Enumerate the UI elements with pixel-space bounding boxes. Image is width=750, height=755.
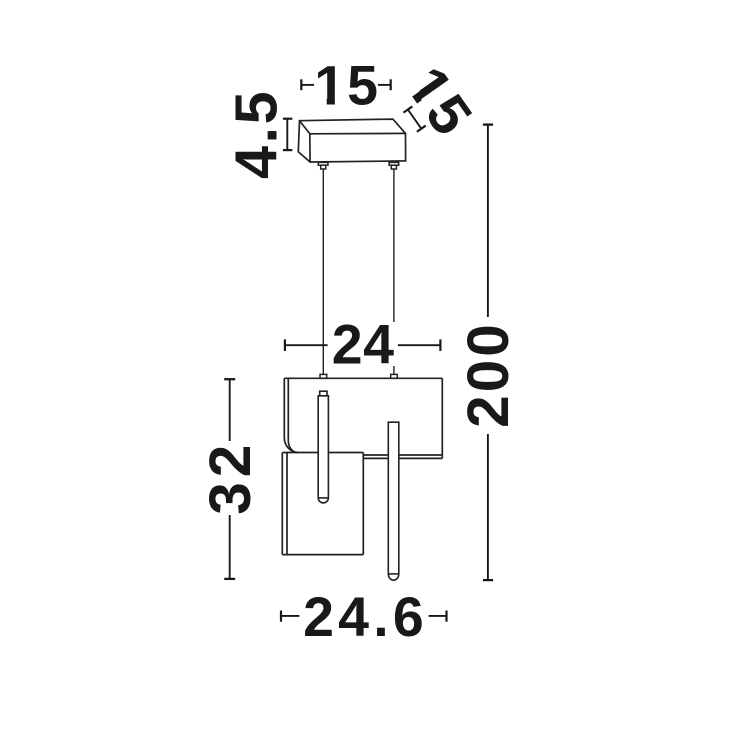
dimension 15 diagonal label <box>393 56 484 148</box>
dimension 200 ticks <box>483 125 493 580</box>
front LED tube cap <box>320 391 327 396</box>
upper panel of lamp body <box>284 378 442 458</box>
svg-text:32: 32 <box>198 440 263 515</box>
svg-text:24.6: 24.6 <box>303 586 428 648</box>
dimension 32 ticks <box>224 379 235 579</box>
right suspension wire <box>393 169 395 374</box>
svg-text:200: 200 <box>456 321 521 428</box>
dimension 15 top ticks <box>301 79 390 90</box>
svg-text:24: 24 <box>332 314 395 376</box>
dimension 15 diagonal ticks <box>403 106 425 131</box>
dimension 24 ticks <box>285 339 441 351</box>
canopy interior edges <box>300 121 406 162</box>
dimension 200 label <box>456 321 521 428</box>
canopy right wire connector <box>389 162 399 169</box>
body left wire nub <box>320 374 327 378</box>
dimension 4.5 ticks <box>283 119 292 150</box>
lower panel of lamp body <box>282 453 363 555</box>
svg-text:15: 15 <box>314 54 380 116</box>
dimension 24 label <box>329 322 396 366</box>
rear LED tube <box>388 422 399 580</box>
dimension 24.6 ticks <box>281 611 447 622</box>
canopy outline <box>298 119 405 162</box>
left suspension wire <box>322 169 324 374</box>
front LED tube <box>318 396 328 503</box>
canopy left wire connector <box>318 162 328 169</box>
body right wire nub <box>391 374 398 378</box>
dimension 4.5 label <box>223 89 290 179</box>
dimension 32 label <box>198 440 263 515</box>
svg-text:4.5: 4.5 <box>223 89 290 179</box>
